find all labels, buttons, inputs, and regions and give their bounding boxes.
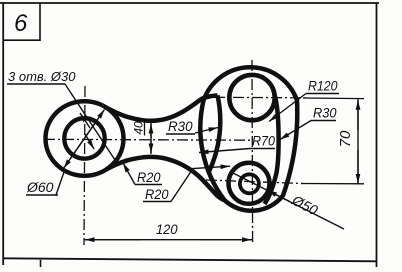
svg-text:R120: R120: [308, 78, 338, 94]
dimension 120: [84, 239, 253, 241]
svg-text:70: 70: [337, 130, 354, 147]
leader R120: [269, 94, 306, 122]
Ø60 diagonal arrow down-left: [64, 119, 99, 169]
svg-text:40: 40: [132, 121, 146, 135]
svg-text:Ø60: Ø60: [26, 179, 54, 195]
centerline head vertical: [251, 60, 254, 245]
left hole Ø30: [64, 118, 104, 158]
bottom hole Ø30: [240, 174, 259, 193]
arrow on Ø50 leader: [268, 190, 291, 201]
leader 3 otv diagonal through hole: [65, 84, 117, 163]
neck top edge: [106, 95, 218, 120]
svg-text:R20: R20: [137, 169, 161, 185]
arrow on hole diagonal upper: [80, 113, 90, 128]
border frame bottom: [3, 258, 377, 261]
svg-text:R30: R30: [168, 118, 193, 134]
number box: [3, 3, 40, 40]
svg-text:R20: R20: [145, 186, 169, 202]
svg-text:120: 120: [156, 221, 178, 237]
centerline top hole horizontal: [214, 96, 305, 99]
dimension 70: [357, 99, 359, 184]
R70 right arc: [265, 93, 279, 204]
top hole right Ø30: [229, 75, 274, 120]
dimension 40: [150, 123, 152, 154]
centerline main axis: [44, 138, 250, 141]
leader R30 neck: [195, 128, 218, 134]
centerline left circle vertical: [84, 86, 85, 245]
leader R20 second (bent): [171, 166, 230, 201]
border frame left: [2, 3, 4, 265]
extension line 70 top: [303, 97, 364, 100]
border frame right: [376, 3, 378, 267]
R70 left arc: [209, 95, 221, 172]
leader R20 first: [123, 163, 135, 185]
svg-text:3 отв. Ø30: 3 отв. Ø30: [8, 69, 76, 84]
tick mark below bottom border: [40, 260, 42, 267]
left circle outer (Ø60 boss): [46, 101, 124, 176]
leader R30 right: [280, 121, 311, 140]
svg-text:6: 6: [14, 10, 28, 37]
leader R70: [199, 149, 250, 153]
centerline bottom circle horizontal: [206, 180, 303, 184]
label Ø50 with slanted leader through circle: [231, 172, 344, 229]
leader Ø60: [56, 172, 64, 195]
extension line 70 bottom: [301, 183, 364, 185]
border frame top: [0, 2, 379, 4]
svg-text:R30: R30: [313, 105, 337, 121]
bottom circle Ø50: [229, 163, 270, 204]
head outline: top cap R30, right side R120, bottom cap, left side: [200, 67, 297, 210]
arrow on hole diagonal lower: [85, 134, 94, 149]
svg-text:R70: R70: [252, 133, 275, 149]
neck bottom edge: [106, 157, 224, 200]
Ø60 diagonal arrow up-right: [70, 110, 105, 160]
